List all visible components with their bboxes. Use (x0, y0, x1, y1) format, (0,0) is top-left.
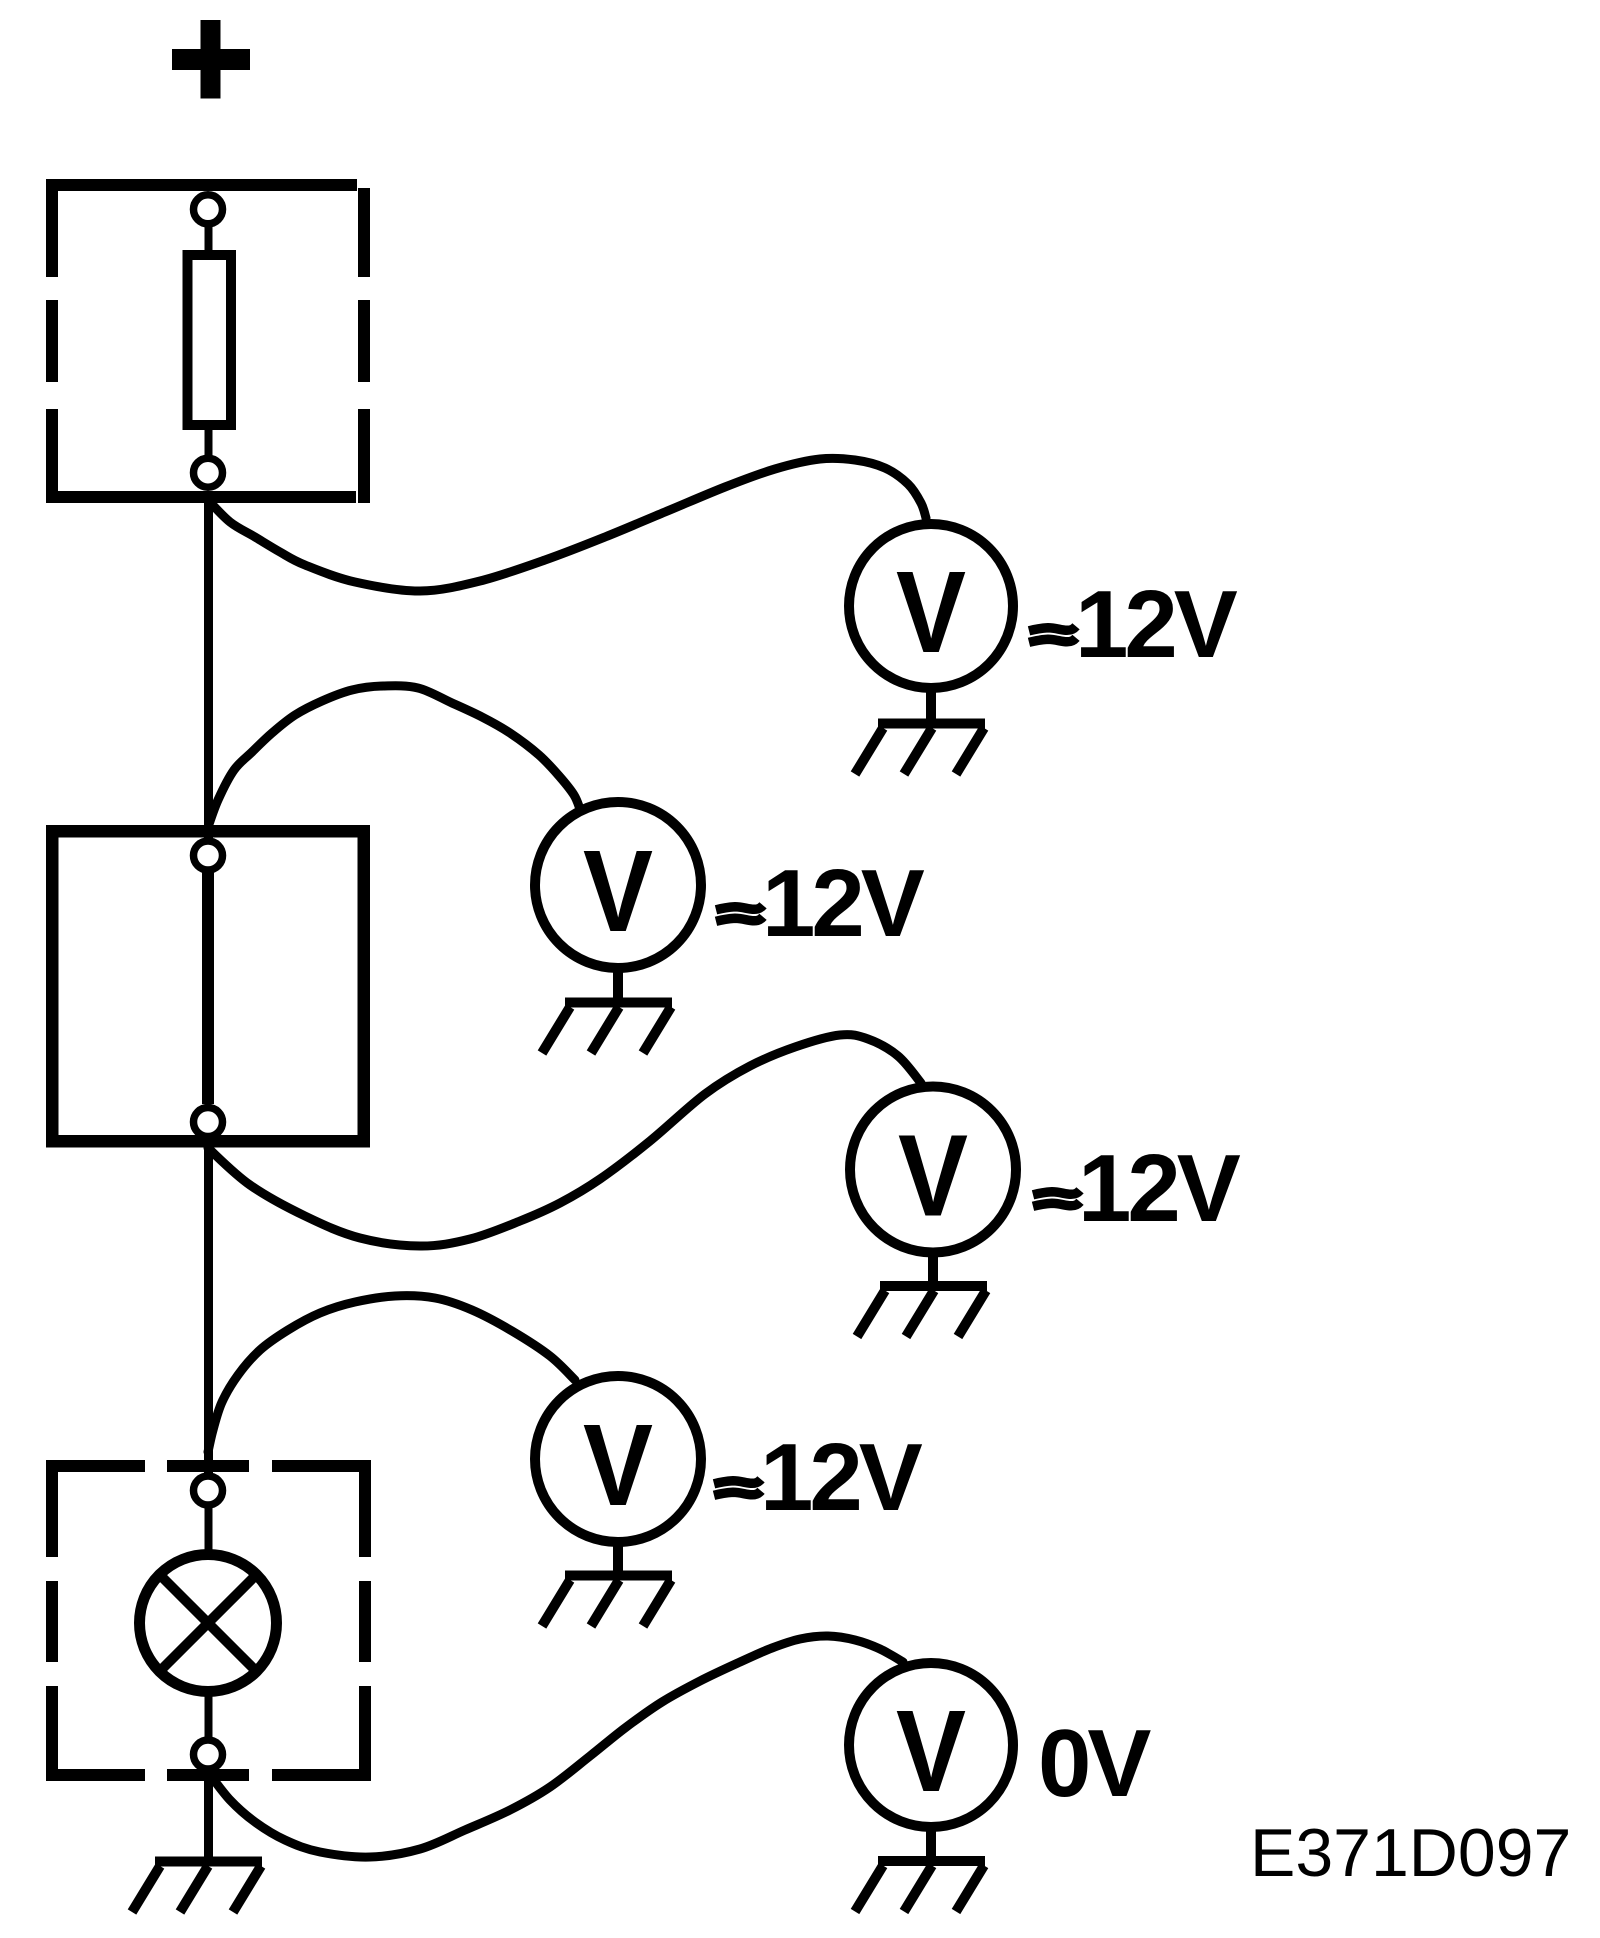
svg-text:V: V (583, 826, 653, 956)
svg-text:0V: 0V (1038, 1710, 1151, 1817)
svg-text:12V: 12V (1078, 1135, 1241, 1242)
svg-text:12V: 12V (760, 1424, 923, 1531)
svg-text:12V: 12V (1075, 571, 1238, 678)
svg-text:V: V (583, 1400, 653, 1530)
svg-text:E371D097: E371D097 (1250, 1815, 1571, 1891)
svg-text:12V: 12V (762, 850, 925, 957)
svg-text:V: V (896, 1686, 966, 1816)
svg-text:V: V (898, 1111, 968, 1241)
svg-text:V: V (896, 547, 966, 677)
